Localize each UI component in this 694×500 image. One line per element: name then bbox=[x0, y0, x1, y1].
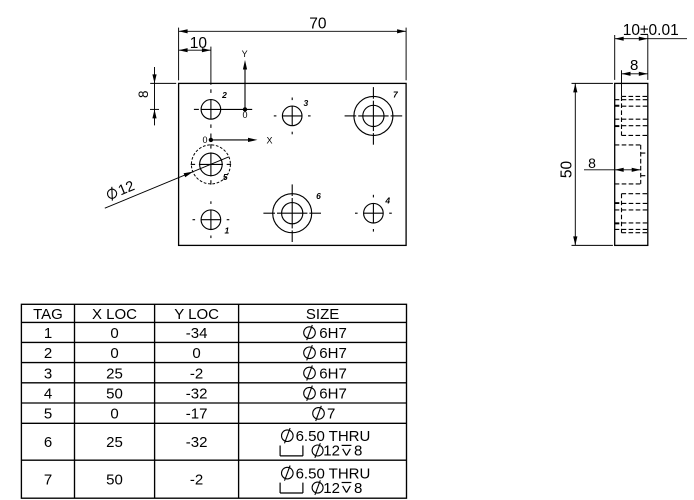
hole 4 centermark bbox=[363, 212, 383, 214]
dimension 70 top bbox=[179, 30, 407, 32]
dimension 8 counterbore depth left bbox=[584, 169, 641, 171]
svg-text:0: 0 bbox=[242, 110, 247, 120]
hole 3 centermark bbox=[282, 115, 302, 117]
hole 6 centermark bbox=[277, 212, 307, 214]
svg-text:3: 3 bbox=[44, 365, 52, 382]
svg-text:8: 8 bbox=[136, 90, 151, 98]
svg-text:50: 50 bbox=[106, 386, 123, 403]
svg-text:8: 8 bbox=[630, 57, 638, 74]
hidden lines hole 5 counterbore bbox=[615, 144, 641, 146]
svg-text:0: 0 bbox=[192, 345, 200, 362]
svg-text:-17: -17 bbox=[186, 406, 208, 423]
hidden lines hole 5 thru bbox=[641, 152, 648, 154]
svg-text:Y: Y bbox=[242, 49, 248, 59]
svg-text:1: 1 bbox=[44, 325, 52, 342]
dimension 10 plus minus 0.01 top bbox=[615, 38, 687, 40]
hidden lines hole 3 bbox=[615, 105, 648, 107]
hidden lines hole 4 bbox=[615, 202, 648, 204]
svg-text:50: 50 bbox=[559, 161, 576, 179]
svg-text:8: 8 bbox=[588, 155, 596, 171]
svg-text:X: X bbox=[266, 135, 272, 145]
dimension 8 left side bbox=[154, 67, 156, 125]
svg-text:7: 7 bbox=[327, 406, 335, 423]
hidden lines hole 2 bbox=[615, 99, 648, 101]
hole table grid bbox=[21, 304, 406, 498]
svg-text:2: 2 bbox=[44, 345, 52, 362]
hidden lines hole 6 counterbore bbox=[622, 193, 648, 195]
svg-text:6H7: 6H7 bbox=[319, 365, 347, 382]
hole 2 circle bbox=[201, 100, 221, 120]
svg-text:3: 3 bbox=[304, 98, 309, 108]
svg-text:0: 0 bbox=[110, 345, 118, 362]
dimension 8 counterbore depth top bbox=[622, 73, 648, 75]
table row 7 size counterbore note bbox=[282, 467, 294, 479]
dimension 50 left of side view bbox=[574, 83, 576, 245]
svg-text:70: 70 bbox=[309, 16, 327, 33]
svg-text:7: 7 bbox=[44, 472, 52, 489]
svg-text:6H7: 6H7 bbox=[319, 386, 347, 403]
hole 5 hidden counterbore dashed circle bbox=[191, 145, 230, 184]
svg-text:12: 12 bbox=[323, 480, 340, 497]
svg-text:TAG: TAG bbox=[33, 306, 63, 323]
table row 5 size diameter 7 bbox=[313, 408, 325, 420]
hole 3 circle bbox=[282, 106, 302, 126]
svg-text:0: 0 bbox=[202, 135, 207, 145]
svg-text:25: 25 bbox=[106, 365, 123, 382]
svg-text:5: 5 bbox=[223, 172, 228, 182]
svg-text:0: 0 bbox=[110, 406, 118, 423]
svg-text:X LOC: X LOC bbox=[92, 306, 137, 323]
hole 5 centermark bbox=[199, 163, 223, 165]
svg-text:0: 0 bbox=[110, 325, 118, 342]
leader line for diameter 12 callout bbox=[105, 157, 229, 208]
hidden lines hole 1 bbox=[615, 209, 648, 211]
hidden lines hole 6 thru bbox=[615, 202, 622, 204]
dimension 10 top-left bbox=[179, 49, 211, 51]
hole 2 centermark bbox=[201, 108, 221, 110]
svg-text:-34: -34 bbox=[186, 325, 208, 342]
hidden lines hole 7 thru bbox=[615, 104, 622, 106]
diameter 12 text bbox=[105, 178, 137, 204]
side view plate outline bbox=[615, 83, 648, 245]
hole 1 centermark bbox=[201, 219, 221, 221]
svg-text:25: 25 bbox=[106, 434, 123, 451]
svg-text:6: 6 bbox=[44, 434, 52, 451]
svg-text:6H7: 6H7 bbox=[319, 345, 347, 362]
svg-text:-32: -32 bbox=[186, 386, 208, 403]
svg-text:-2: -2 bbox=[190, 365, 203, 382]
svg-text:Y LOC: Y LOC bbox=[174, 306, 219, 323]
svg-text:12: 12 bbox=[323, 443, 340, 460]
svg-text:4: 4 bbox=[384, 196, 390, 206]
svg-text:5: 5 bbox=[44, 406, 52, 423]
svg-text:10: 10 bbox=[190, 35, 208, 52]
svg-text:8: 8 bbox=[354, 480, 362, 497]
svg-text:6: 6 bbox=[316, 191, 321, 201]
front view plate outline bbox=[179, 83, 407, 245]
svg-text:-2: -2 bbox=[190, 472, 203, 489]
svg-text:-32: -32 bbox=[186, 434, 208, 451]
hole 6 counterbore circles bbox=[273, 194, 312, 233]
hidden lines hole 7 counterbore bbox=[622, 95, 648, 97]
hole 1 circle bbox=[201, 210, 221, 230]
svg-text:1: 1 bbox=[225, 226, 230, 236]
Y axis arrow bbox=[244, 69, 246, 109]
table row 6 size counterbore note bbox=[282, 430, 294, 442]
svg-text:10±0.01: 10±0.01 bbox=[623, 22, 679, 39]
hole 7 centermark bbox=[358, 115, 388, 117]
svg-text:SIZE: SIZE bbox=[306, 306, 339, 323]
svg-text:8: 8 bbox=[354, 443, 362, 460]
svg-text:2: 2 bbox=[221, 90, 227, 100]
hole 7 counterbore circles bbox=[354, 96, 393, 135]
hole 5 circle bbox=[200, 153, 223, 176]
Y origin dot and 0 label bbox=[243, 107, 247, 111]
svg-text:50: 50 bbox=[106, 472, 123, 489]
svg-text:6H7: 6H7 bbox=[319, 325, 347, 342]
svg-text:4: 4 bbox=[44, 386, 52, 403]
X axis arrow bbox=[209, 138, 213, 142]
hole 4 circle bbox=[364, 203, 384, 223]
